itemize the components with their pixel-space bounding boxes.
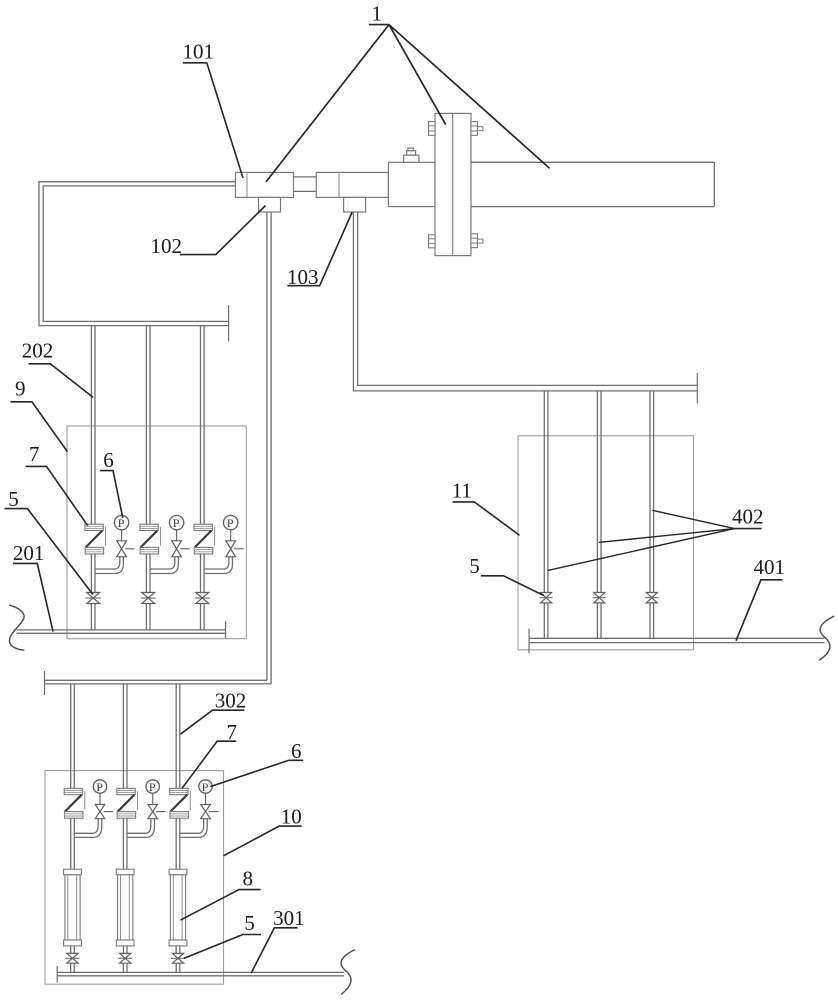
svg-text:5: 5	[244, 911, 255, 935]
wire: header 301 (bottom manifold group 10)	[57, 972, 344, 975]
node: header 302 left tick	[44, 671, 46, 695]
wire: pipe to header 201 unit 2	[146, 604, 150, 630]
wire: drop pipe 1 from header 202 (group 9)	[91, 326, 95, 525]
leader: 1 to main pipe	[389, 25, 550, 169]
enclosure box 11	[518, 436, 694, 650]
svg-text:P: P	[96, 780, 103, 794]
valve 5 unit 2 group 10	[118, 953, 132, 963]
wire: riser from tee 103 down and header to group 11	[353, 212, 697, 391]
svg-text:9: 9	[15, 377, 26, 401]
pressure gauge 6 unit 1 group 10	[93, 780, 106, 794]
svg-text:P: P	[149, 780, 156, 794]
label 401	[736, 555, 785, 641]
valve 7 unit 1 group 9	[85, 524, 106, 554]
flange pair 1	[435, 113, 471, 255]
pressure gauge 6 unit 2 group 9	[169, 515, 183, 530]
label 7 (group 10)	[182, 720, 237, 788]
wire: feed pipe left loop (down to header 202)	[39, 182, 236, 326]
wire: drop pipe 1 from header 302	[71, 684, 75, 789]
leader: 1 to flange	[389, 25, 446, 125]
valve 7 unit 2 group 9	[140, 524, 161, 554]
wire: riser from tee 102 down to header 302	[267, 212, 271, 684]
svg-text:301: 301	[273, 906, 305, 930]
label 6 (group 9)	[100, 448, 123, 518]
label 103	[287, 213, 352, 290]
svg-text:5: 5	[469, 554, 480, 578]
valve 5 unit 3 group 10	[171, 953, 185, 963]
wire: elbow hose unit 1 group 9	[95, 557, 123, 574]
valve gauge isolation unit 1 group 9	[117, 541, 135, 557]
node: header end tick (left header)	[228, 305, 230, 342]
valve 7 unit 3 group 9	[194, 524, 215, 554]
vent nipple on device body	[404, 148, 419, 162]
valve gauge isolation unit 1 group 10	[95, 805, 113, 819]
svg-text:11: 11	[452, 479, 472, 503]
valve 5 unit 3 group 11	[645, 593, 658, 603]
wire: elbow hose unit 2 group 9	[150, 557, 178, 574]
wire: drop pipe 2 from header 302	[123, 684, 127, 789]
bolt: flange bottom-right	[471, 234, 483, 248]
wire: elbow hose unit 1 group 10	[74, 819, 102, 838]
enclosure box 10	[45, 771, 224, 985]
svg-text:7: 7	[227, 720, 238, 744]
valve gauge isolation unit 3 group 10	[201, 805, 219, 819]
leader: 1 to first block	[266, 25, 389, 182]
label 7 (group 9)	[26, 442, 88, 525]
label 10	[224, 804, 302, 856]
label 101	[183, 39, 244, 178]
node 103: tee stub under second block	[344, 197, 366, 212]
wire: drop pipe 2 from header 202 (group 9)	[146, 326, 150, 525]
svg-text:10: 10	[281, 804, 302, 828]
valve gauge isolation unit 2 group 9	[172, 541, 190, 557]
wire: pipe to header 301 unit 1	[71, 963, 75, 972]
svg-text:6: 6	[291, 739, 302, 763]
label 5 (group 10)	[184, 911, 261, 959]
wire: pipe below valve 7 unit 1 group 9	[91, 554, 95, 593]
label 5 (group 9)	[5, 487, 93, 595]
filter cylinder 8 unit 2	[116, 869, 134, 946]
wire: gauge stem unit 1 group 9	[121, 530, 123, 541]
label 202	[22, 339, 93, 398]
pipe break squiggle (line 201)	[9, 605, 24, 650]
label 102	[151, 206, 266, 258]
pressure gauge 6 unit 1 group 9	[114, 515, 128, 530]
svg-text:202: 202	[22, 339, 54, 363]
svg-text:8: 8	[243, 866, 254, 890]
svg-text:P: P	[173, 516, 180, 530]
node 102: tee stub under first block	[259, 197, 281, 212]
svg-text:102: 102	[151, 234, 183, 258]
bolt: flange top-right	[471, 122, 483, 136]
label 302	[180, 689, 246, 735]
pipe break squiggle (line 401)	[819, 616, 834, 660]
svg-text:402: 402	[732, 505, 764, 529]
label 11	[452, 479, 520, 536]
valve 7 unit 2 group 10	[117, 788, 138, 818]
wire: gauge stem unit 3 group 9	[230, 530, 232, 541]
wire: drop pipe 3 from header (group 11)	[650, 391, 654, 593]
label 1	[369, 2, 389, 26]
svg-text:302: 302	[215, 689, 247, 713]
valve gauge isolation unit 3 group 9	[226, 541, 244, 557]
label 8	[181, 866, 261, 920]
wire: pipe below valve 7 unit 3 group 9	[201, 554, 205, 593]
wire: pipe below valve 7 unit 2 group 10	[123, 818, 127, 869]
bolt: flange top-left	[429, 122, 435, 136]
wire: header 401 (bottom manifold group 11)	[529, 638, 825, 642]
leader: 402 to drop pipe 3	[652, 510, 734, 528]
filter cylinder 8 unit 3	[169, 869, 187, 946]
wire: header 302 (top manifold group 10)	[44, 680, 271, 684]
wire: elbow hose unit 3 group 9	[204, 557, 232, 574]
wire: connector between block 1 and block 2	[294, 177, 317, 192]
pressure gauge 6 unit 2 group 10	[146, 780, 159, 794]
bolt: flange bottom-left	[429, 235, 435, 248]
valve 5 unit 1 group 11	[540, 593, 553, 603]
node: header 401 left tick	[528, 629, 530, 653]
wire: pipe to header 401 unit 3	[650, 603, 654, 638]
valve gauge isolation unit 2 group 10	[148, 805, 166, 819]
valve 5 unit 2 group 9	[141, 593, 156, 604]
pressure gauge 6 unit 3 group 10	[199, 780, 212, 794]
wire: drop pipe 2 from header (group 11)	[597, 391, 601, 593]
svg-text:P: P	[202, 780, 209, 794]
wire: pipe to header 301 unit 3	[176, 963, 180, 972]
label 5 (group 11)	[469, 554, 544, 596]
wire: gauge stem unit 3 group 10	[205, 793, 207, 804]
wire: elbow hose unit 2 group 10	[127, 819, 155, 838]
wire: pipe below valve 7 unit 2 group 9	[146, 554, 150, 593]
wire: pipe below cylinder unit 3	[176, 946, 180, 954]
wire: pipe below cylinder unit 2	[123, 946, 127, 954]
leader: 402 to drop pipe 2	[599, 529, 735, 543]
wire: pipe below cylinder unit 1	[71, 946, 75, 954]
svg-text:401: 401	[754, 555, 786, 579]
svg-text:201: 201	[13, 541, 45, 565]
svg-text:5: 5	[8, 487, 19, 511]
valve body (second block)	[316, 172, 388, 197]
label 6 (group 10)	[210, 739, 303, 787]
label 201	[13, 541, 53, 632]
svg-text:P: P	[118, 516, 125, 530]
wire: gauge stem unit 1 group 10	[99, 793, 101, 804]
valve 5 unit 3 group 9	[195, 593, 210, 604]
valve 7 unit 3 group 10	[170, 788, 191, 818]
valve 7 unit 1 group 10	[64, 788, 85, 818]
wire: drop pipe 3 from header 302	[176, 684, 180, 789]
enclosure box 9	[67, 426, 246, 639]
wire: gauge stem unit 2 group 10	[152, 793, 154, 804]
wire: pipe to header 301 unit 2	[123, 963, 127, 972]
svg-text:7: 7	[29, 442, 40, 466]
node: header end tick (group 11 header)	[696, 373, 698, 403]
wire: header 201 (bottom manifold group 9)	[17, 630, 226, 633]
valve 5 unit 2 group 11	[593, 593, 606, 603]
main device body (third block)	[388, 162, 435, 206]
pipe 1: main pipe right of flange	[471, 162, 714, 206]
svg-text:1: 1	[372, 2, 383, 26]
node: header 301 left tick	[56, 966, 58, 983]
wire: pipe to header 201 unit 3	[201, 604, 205, 630]
wire: pipe to header 401 unit 1	[544, 603, 548, 638]
wire: pipe below valve 7 unit 1 group 10	[71, 818, 75, 869]
svg-text:101: 101	[183, 39, 215, 63]
filter cylinder 8 unit 1	[64, 869, 82, 946]
svg-text:P: P	[227, 516, 234, 530]
label 402	[732, 505, 764, 529]
wire: pipe below valve 7 unit 3 group 10	[176, 818, 180, 869]
wire: drop pipe 3 from header 202 (group 9)	[201, 326, 205, 525]
wire: elbow hose unit 3 group 10	[180, 819, 208, 838]
valve 5 unit 1 group 10	[66, 953, 80, 963]
wire: gauge stem unit 2 group 9	[176, 530, 178, 541]
wire: pipe to header 401 unit 2	[597, 603, 601, 638]
wire: drop pipe 1 from header (group 11)	[544, 391, 548, 593]
leader: 402 to drop pipe 1	[548, 529, 735, 571]
pressure gauge 6 unit 3 group 9	[224, 515, 238, 530]
valve 5 unit 1 group 9	[86, 593, 101, 604]
node: header 201 end tick	[225, 621, 227, 639]
label 301	[251, 906, 305, 973]
valve body 101 (first block)	[236, 172, 294, 197]
label 9	[10, 377, 67, 452]
wire: pipe to header 201 unit 1	[91, 604, 95, 630]
svg-text:6: 6	[103, 448, 114, 472]
pipe break squiggle (line 301)	[341, 950, 355, 995]
